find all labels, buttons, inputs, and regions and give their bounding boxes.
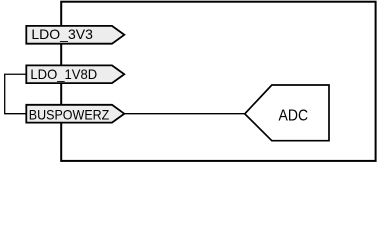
net flag BUSPOWERZ bbox=[26, 105, 124, 123]
svg-text:ADC: ADC bbox=[279, 108, 309, 125]
net flag LDO_3V3 bbox=[26, 26, 124, 44]
block ADC bbox=[245, 85, 329, 141]
svg-text:LDO_3V3: LDO_3V3 bbox=[31, 27, 93, 42]
net flag LDO_1V8D bbox=[26, 65, 124, 83]
svg-text:LDO_1V8D: LDO_1V8D bbox=[30, 67, 97, 82]
svg-text:BUSPOWERZ: BUSPOWERZ bbox=[29, 107, 110, 122]
wire (bracket from LDO_1V8D left to BUSPOWERZ left) bbox=[5, 74, 27, 113]
wire (BUSPOWERZ to ADC) bbox=[124, 113, 245, 115]
block outline (schematic sheet box) bbox=[61, 2, 375, 161]
